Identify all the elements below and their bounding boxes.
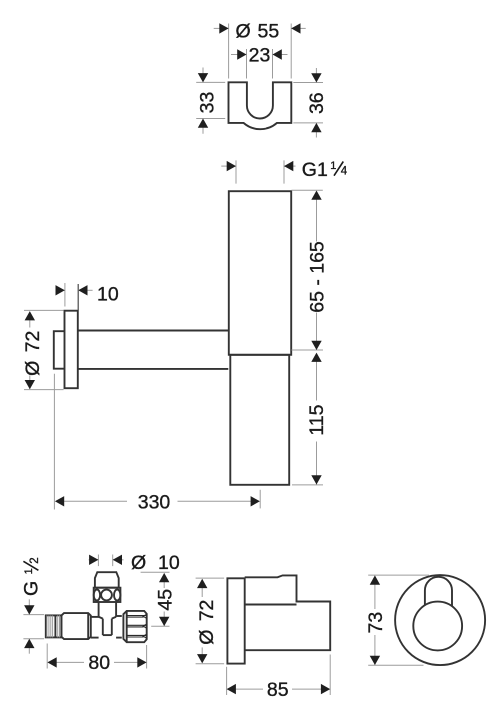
svg-text:330: 330 bbox=[138, 491, 171, 513]
svg-text:36: 36 bbox=[306, 92, 328, 114]
svg-text:72: 72 bbox=[196, 600, 218, 622]
svg-text:115: 115 bbox=[306, 404, 328, 435]
svg-text:1: 1 bbox=[23, 568, 35, 574]
svg-text:23: 23 bbox=[249, 45, 271, 67]
svg-text:2: 2 bbox=[29, 557, 41, 563]
svg-text:45: 45 bbox=[154, 589, 176, 611]
svg-text:85: 85 bbox=[267, 679, 289, 701]
svg-text:G: G bbox=[20, 581, 42, 596]
svg-text:G1: G1 bbox=[302, 159, 328, 181]
svg-text:1: 1 bbox=[330, 160, 336, 172]
svg-text:55: 55 bbox=[258, 20, 280, 42]
svg-text:72: 72 bbox=[22, 331, 44, 353]
svg-text:Ø: Ø bbox=[131, 552, 146, 574]
svg-text:10: 10 bbox=[97, 283, 119, 305]
svg-text:65 - 165: 65 - 165 bbox=[306, 241, 328, 313]
svg-text:Ø: Ø bbox=[236, 20, 251, 42]
svg-text:Ø: Ø bbox=[22, 361, 44, 376]
svg-text:33: 33 bbox=[197, 92, 219, 114]
svg-text:73: 73 bbox=[365, 612, 387, 634]
svg-text:10: 10 bbox=[158, 552, 180, 574]
svg-text:4: 4 bbox=[341, 166, 348, 178]
svg-text:Ø: Ø bbox=[196, 630, 218, 645]
svg-text:80: 80 bbox=[88, 652, 110, 674]
